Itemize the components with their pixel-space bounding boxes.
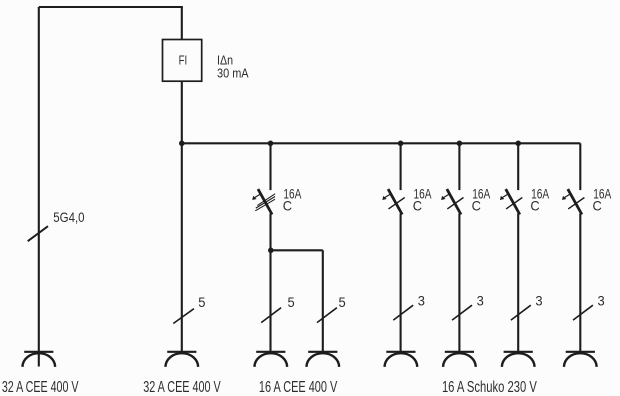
breaker Q1 pole slashes (3 poles) <box>255 194 275 211</box>
breaker Q1 blade <box>258 189 272 214</box>
breaker Q5 blade <box>568 189 582 214</box>
breaker Q5 pole slash <box>568 198 584 209</box>
conductor-count slash drop B right <box>317 308 337 323</box>
socket XQ4 top bar <box>504 351 533 353</box>
svg-text:30 mA: 30 mA <box>217 65 249 80</box>
breaker Q4 actuator arrow <box>500 194 508 200</box>
breaker Q2 actuator arrow <box>382 194 390 200</box>
junction node: FI drop / bus <box>179 141 185 147</box>
wire: drop Q5 below breaker to socket <box>579 214 581 353</box>
breaker Q2 blade <box>388 189 402 214</box>
socket XQ3 arc <box>443 353 476 367</box>
breaker Q5 16A C wire from bus <box>579 143 581 190</box>
socket X2 top bar <box>167 351 196 353</box>
socket X4 top bar <box>308 351 337 353</box>
junction node: drop Q4 on bus <box>515 141 521 147</box>
breaker Q1 actuator arrow <box>252 194 260 200</box>
socket XQ5 top bar <box>566 351 595 353</box>
breaker Q1 16A C wire from bus <box>269 143 271 190</box>
bus wire horizontal <box>182 142 581 144</box>
svg-text:FI: FI <box>179 53 188 68</box>
breaker Q3 blade <box>447 189 461 214</box>
breaker Q4 pole slash <box>506 198 522 209</box>
RCD FI box <box>163 40 202 82</box>
svg-text:5: 5 <box>339 295 346 310</box>
socket XQ3 top bar <box>445 351 474 353</box>
svg-text:3: 3 <box>418 294 425 309</box>
socket XQ2 arc <box>385 353 418 367</box>
svg-text:5: 5 <box>288 295 295 310</box>
socket XQ2 top bar <box>386 351 415 353</box>
wire: drop B below breaker to junction and socket <box>269 214 271 353</box>
socket XQ5 arc <box>564 353 597 367</box>
junction node: drop B split <box>268 248 274 254</box>
svg-text:3: 3 <box>535 294 542 309</box>
junction node: drop Q2 on bus <box>398 141 404 147</box>
breaker Q2 pole slash <box>389 198 405 209</box>
socket X4 arc <box>307 353 340 367</box>
breaker Q3 actuator arrow <box>441 194 449 200</box>
svg-text:16 A Schuko 230 V: 16 A Schuko 230 V <box>442 379 537 396</box>
svg-text:5: 5 <box>198 295 205 310</box>
socket X3 arc <box>255 353 288 367</box>
svg-text:C: C <box>530 199 539 214</box>
socket X2 arc <box>166 353 199 367</box>
svg-text:5G4,0: 5G4,0 <box>53 210 84 225</box>
breaker Q3 16A C wire from bus <box>458 143 460 190</box>
breaker Q3 pole slash <box>447 198 463 209</box>
svg-text:32 A CEE 400 V: 32 A CEE 400 V <box>143 379 221 396</box>
svg-text:C: C <box>413 199 422 214</box>
wire: FI box bottom lead to bus <box>181 81 183 143</box>
wire: FI box top lead <box>181 7 183 40</box>
conductor slash on feed 5G4,0 <box>28 226 48 241</box>
wire: drop B branch horizontal <box>271 249 323 251</box>
wire: drop Q3 below breaker to socket <box>458 214 460 353</box>
breaker Q5 actuator arrow <box>562 194 570 200</box>
conductor-count slash Q3 <box>452 305 472 320</box>
junction node: drop B on bus <box>268 141 274 147</box>
svg-text:16 A CEE 400 V: 16 A CEE 400 V <box>259 379 338 396</box>
svg-text:3: 3 <box>598 294 605 309</box>
wire: drop B right leg down <box>322 250 324 352</box>
svg-text:C: C <box>472 199 481 214</box>
svg-text:C: C <box>593 199 602 214</box>
socket XQ4 arc <box>502 353 535 367</box>
conductor-count slash Q5 <box>573 305 593 320</box>
svg-text:C: C <box>283 199 292 214</box>
wire: top horizontal feed <box>39 6 183 8</box>
conductor slash drop A <box>173 309 194 324</box>
breaker Q2 16A C wire from bus <box>400 143 402 190</box>
socket X3 top bar <box>256 351 285 353</box>
wire: incoming feed vertical (left) <box>38 7 40 367</box>
wire: drop Q4 below breaker to socket <box>517 214 519 353</box>
conductor-count slash drop B left <box>261 308 281 323</box>
svg-text:3: 3 <box>477 294 484 309</box>
socket X1 arc <box>23 353 56 367</box>
conductor-count slash Q2 <box>393 305 413 320</box>
svg-text:32 A CEE 400 V: 32 A CEE 400 V <box>2 379 79 396</box>
socket X1 top bar <box>24 351 53 353</box>
breaker Q4 16A C wire from bus <box>517 143 519 190</box>
conductor-count slash Q4 <box>511 305 531 320</box>
junction node: drop Q3 on bus <box>457 141 463 147</box>
wire: drop A 32A CEE from bus to socket <box>181 143 183 352</box>
wire: drop Q2 below breaker to socket <box>400 214 402 353</box>
breaker Q4 blade <box>506 189 520 214</box>
